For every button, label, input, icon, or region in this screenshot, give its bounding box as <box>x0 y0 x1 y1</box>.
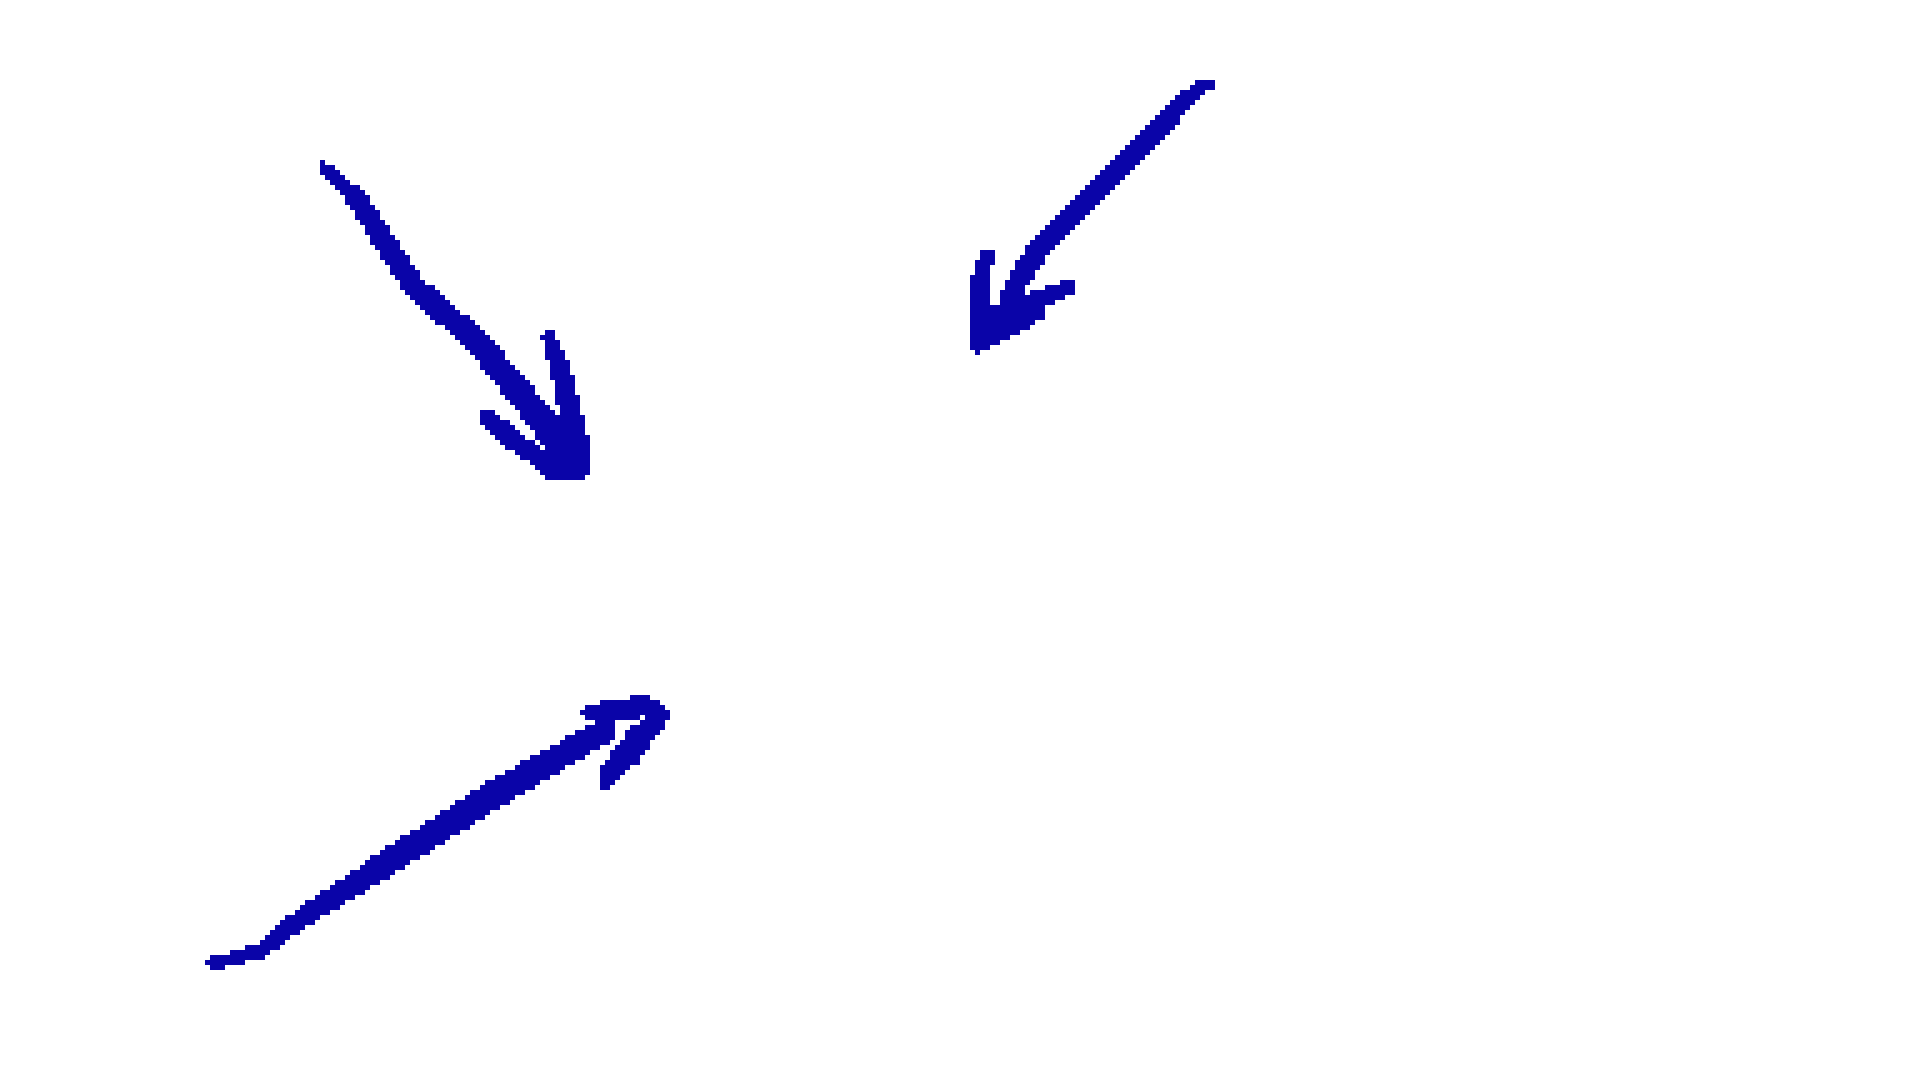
arrow 1 (upper-left, pointing down-right): shaft <box>320 160 580 465</box>
arrow 1 arrowhead <box>480 330 590 480</box>
arrow 3 (lower-left, pointing up-right): shaft <box>205 720 615 970</box>
arrow 2 (upper-right, pointing down-left): shaft <box>1000 80 1215 315</box>
arrow 3 arrowhead <box>580 695 670 790</box>
arrow 2 arrowhead <box>970 250 1075 355</box>
